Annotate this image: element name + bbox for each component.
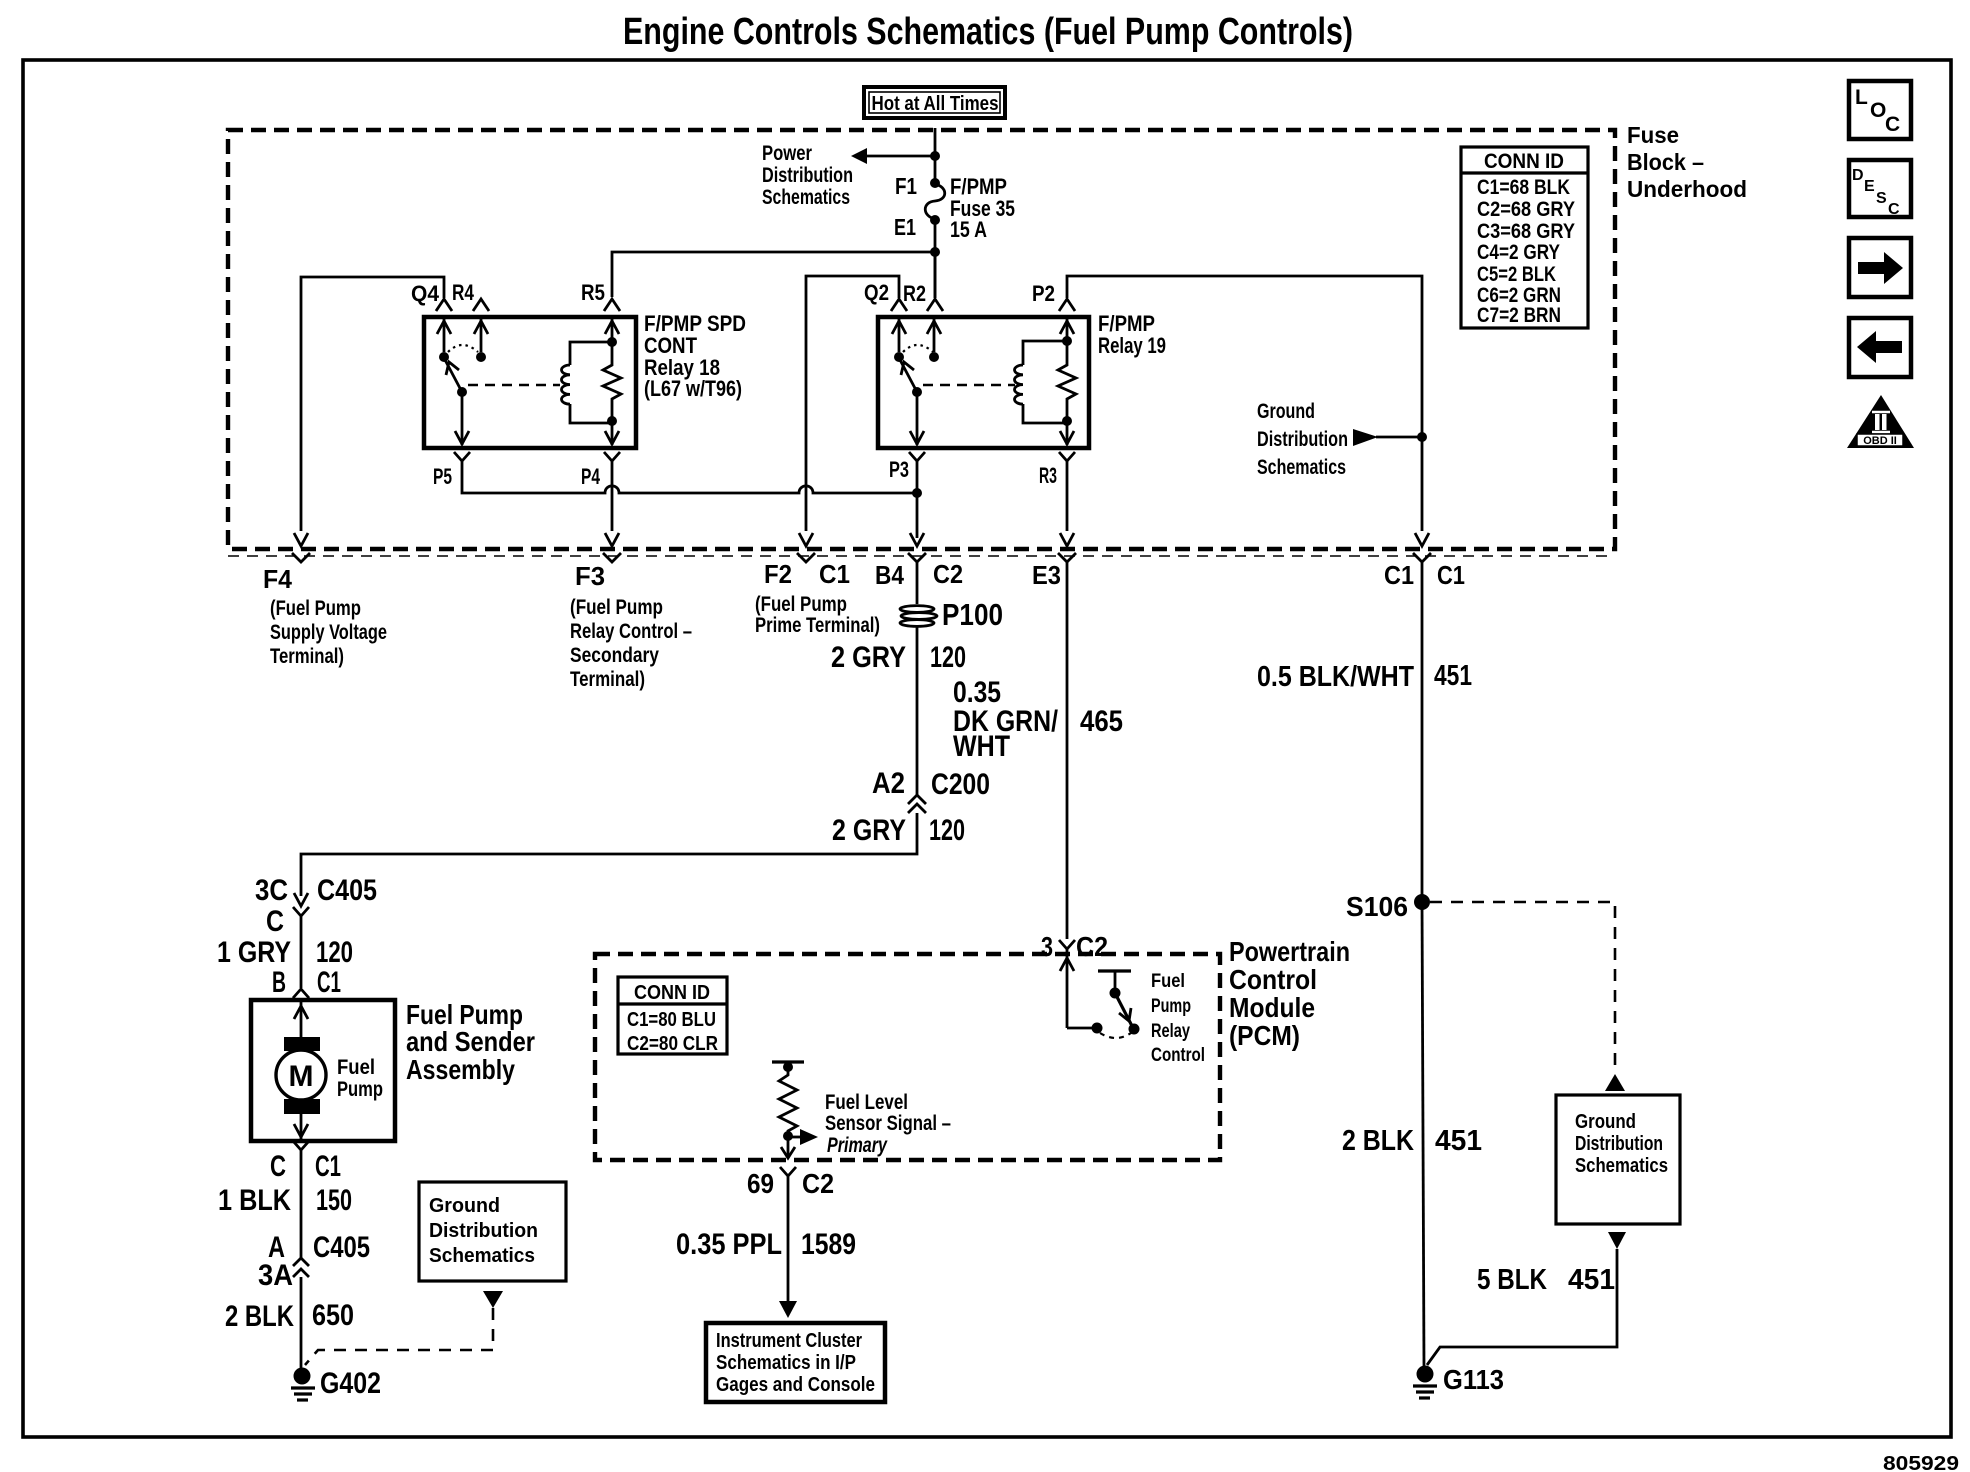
svg-text:15 A: 15 A	[950, 217, 987, 242]
svg-text:Q2: Q2	[864, 280, 889, 305]
node fuse output junction	[930, 247, 940, 257]
svg-text:Hot at All Times: Hot at All Times	[872, 93, 999, 115]
svg-text:120: 120	[929, 814, 965, 847]
wire circuit 451 from S106 to G113	[1422, 902, 1424, 1367]
value label 2 GRY 120	[831, 641, 966, 674]
svg-text:A2: A2	[872, 767, 905, 800]
svg-text:650: 650	[312, 1299, 354, 1332]
svg-text:Schematics in I/P: Schematics in I/P	[716, 1352, 856, 1374]
svg-text:3: 3	[1041, 931, 1053, 962]
svg-text:C1: C1	[1437, 560, 1465, 590]
svg-text:451: 451	[1435, 1125, 1482, 1157]
wire circuit 1589	[787, 1176, 790, 1303]
connector C405 pin 3C	[255, 874, 377, 938]
svg-text:CONN ID: CONN ID	[634, 982, 710, 1004]
svg-text:R2: R2	[903, 281, 926, 306]
label (Fuel Pump Relay Control - Secondary Terminal)	[570, 596, 692, 691]
wire R3 down to E3	[1066, 461, 1069, 531]
svg-text:C2=68 GRY: C2=68 GRY	[1477, 198, 1575, 221]
wire P3 down through junction	[916, 461, 919, 538]
svg-text:Schematics: Schematics	[1257, 456, 1346, 479]
svg-text:R5: R5	[581, 280, 605, 305]
value label 2 GRY 120 (below C200)	[832, 814, 965, 847]
svg-text:C1=68 BLK: C1=68 BLK	[1477, 176, 1570, 199]
svg-text:69: 69	[747, 1168, 774, 1199]
wire F4 feed	[301, 277, 444, 531]
pin chevron P3	[909, 452, 925, 461]
svg-text:Fuel: Fuel	[337, 1056, 375, 1079]
svg-text:O: O	[1870, 99, 1886, 122]
pin chevron P2	[1059, 299, 1075, 311]
wire battery feed from Hot at All Times	[934, 128, 937, 179]
svg-text:C2: C2	[1076, 931, 1108, 962]
wire circuit 451 (5 BLK) to G113	[1427, 1249, 1617, 1365]
svg-text:Ground: Ground	[1257, 400, 1315, 423]
svg-text:C405: C405	[317, 874, 377, 907]
svg-text:C1: C1	[317, 966, 341, 999]
svg-text:0.5 BLK/WHT: 0.5 BLK/WHT	[1257, 661, 1414, 693]
LOC icon	[1849, 81, 1911, 139]
svg-text:C: C	[1888, 201, 1900, 218]
wire circuit 465 from E3 to PCM	[1066, 562, 1069, 939]
svg-text:Engine Controls Schematics (Fu: Engine Controls Schematics (Fuel Pump Co…	[623, 11, 1353, 53]
svg-text:C4=2 GRY: C4=2 GRY	[1477, 241, 1560, 264]
terminal chevron F3	[603, 553, 621, 562]
svg-text:3C: 3C	[255, 874, 288, 907]
svg-text:Control: Control	[1151, 1045, 1205, 1066]
svg-text:Distribution: Distribution	[429, 1220, 538, 1242]
connector C1 pin B (fuel pump)	[272, 966, 341, 999]
svg-text:E1: E1	[894, 214, 916, 240]
relay K18 coil link (dashed)	[468, 384, 560, 386]
left arrow icon	[1849, 318, 1911, 377]
svg-text:G113: G113	[1443, 1364, 1504, 1395]
terminal chevron F4	[292, 553, 310, 562]
arrow into S106 reference	[1605, 1074, 1625, 1091]
svg-text:Terminal): Terminal)	[270, 645, 344, 668]
connector C1 pin C (fuel pump ground)	[270, 1141, 341, 1183]
splice P100	[900, 597, 1003, 632]
label Fuel Pump Relay Control	[1151, 971, 1205, 1066]
arrow into instrument cluster reference	[779, 1301, 797, 1318]
svg-text:Control: Control	[1229, 964, 1317, 995]
svg-text:C1: C1	[1384, 560, 1414, 590]
svg-text:Primary: Primary	[827, 1134, 888, 1157]
svg-text:G402: G402	[320, 1367, 381, 1400]
svg-text:Secondary: Secondary	[570, 644, 659, 667]
svg-text:451: 451	[1568, 1264, 1615, 1296]
DESC icon	[1849, 160, 1911, 218]
value label 0.35 DK GRN/WHT 465	[953, 676, 1123, 763]
connector C2 pin 3 (PCM)	[1041, 931, 1108, 962]
terminal chevron B4/C2	[908, 553, 926, 562]
svg-text:Distribution: Distribution	[762, 164, 853, 187]
value label 5 BLK 451	[1477, 1264, 1615, 1296]
svg-text:S106: S106	[1346, 891, 1408, 922]
svg-text:P4: P4	[581, 464, 601, 489]
terminal chevron E3	[1058, 553, 1076, 562]
CONN ID table (fuse block)	[1461, 147, 1588, 328]
title	[623, 11, 1353, 53]
svg-text:P100: P100	[942, 597, 1003, 632]
arrow from Ground Distribution box (right)	[1608, 1232, 1626, 1249]
svg-text:Q4: Q4	[411, 281, 440, 306]
svg-text:3A: 3A	[258, 1259, 293, 1292]
svg-text:R3: R3	[1039, 463, 1057, 488]
svg-text:Gages and Console: Gages and Console	[716, 1374, 875, 1396]
value label 0.35 PPL 1589	[676, 1228, 856, 1261]
svg-text:B: B	[272, 966, 286, 999]
svg-text:C7=2 BRN: C7=2 BRN	[1477, 304, 1561, 327]
svg-text:P2: P2	[1032, 281, 1055, 306]
terminal chevron F2/C1	[797, 553, 815, 562]
svg-text:451: 451	[1434, 660, 1472, 692]
node junction at power distribution tap	[930, 151, 940, 161]
svg-text:C: C	[266, 905, 284, 938]
pin chevron Q2	[891, 299, 907, 311]
svg-text:Schematics: Schematics	[429, 1245, 535, 1267]
svg-text:C5=2 BLK: C5=2 BLK	[1477, 263, 1556, 286]
svg-text:2 GRY: 2 GRY	[832, 814, 906, 847]
svg-text:150: 150	[316, 1184, 352, 1217]
svg-text:1589: 1589	[801, 1228, 856, 1261]
PCM boundary (Powertrain Control Module)	[595, 954, 1220, 1160]
svg-text:Module: Module	[1229, 992, 1315, 1023]
svg-text:F1: F1	[895, 173, 917, 199]
svg-text:120: 120	[930, 641, 966, 674]
value label 1 BLK 150	[218, 1184, 352, 1217]
relay K18 coil	[562, 317, 620, 423]
svg-text:P3: P3	[889, 457, 909, 482]
wire P5 to P3 junction (hops over P4 and F2 wires)	[462, 461, 917, 493]
svg-text:P5: P5	[433, 464, 452, 489]
svg-text:B4: B4	[875, 560, 904, 590]
wire circuit 120 to fuel pump	[300, 916, 303, 988]
wire circuit 120 below P100	[916, 627, 919, 795]
svg-text:E: E	[1864, 178, 1875, 195]
svg-text:5 BLK: 5 BLK	[1477, 1264, 1547, 1296]
terminal chevron C1/C1	[1413, 553, 1431, 562]
label F/PMP SPD CONT Relay 18 (L67 w/T96)	[644, 311, 746, 401]
label Powertrain Control Module (PCM)	[1229, 936, 1350, 1051]
svg-text:C1: C1	[819, 559, 850, 589]
label F/PMP Relay 19	[1098, 311, 1166, 358]
svg-text:Power: Power	[762, 142, 812, 165]
svg-text:C405: C405	[313, 1231, 370, 1264]
svg-text:Fuel Level: Fuel Level	[825, 1091, 908, 1114]
relay K19 switch	[892, 317, 941, 445]
ground G113	[1413, 1364, 1504, 1398]
svg-text:Ground: Ground	[429, 1195, 500, 1217]
wire to Power Distribution Schematics	[863, 155, 935, 158]
svg-text:2 BLK: 2 BLK	[225, 1300, 294, 1333]
svg-text:Sensor Signal –: Sensor Signal –	[825, 1112, 951, 1135]
svg-text:C2: C2	[802, 1168, 834, 1199]
svg-text:CONN ID: CONN ID	[1484, 150, 1564, 173]
wire circuit 650 to G402	[300, 1277, 303, 1368]
wire fuse output	[934, 221, 937, 298]
svg-text:Fuel: Fuel	[1151, 971, 1185, 992]
svg-text:F2: F2	[764, 559, 792, 589]
svg-text:L: L	[1855, 86, 1868, 109]
Hot at All Times tag	[864, 87, 1005, 118]
svg-text:C2=80 CLR: C2=80 CLR	[627, 1033, 718, 1055]
wire circuit 150	[300, 1150, 303, 1258]
right arrow icon	[1849, 238, 1911, 297]
label (Fuel Pump Prime Terminal)	[755, 593, 880, 637]
svg-text:465: 465	[1080, 705, 1123, 738]
fuse block boundary (Fuse Block - Underhood)	[228, 122, 1747, 549]
label Power Distribution Schematics	[762, 142, 853, 209]
svg-text:Schematics: Schematics	[1575, 1155, 1668, 1177]
wire fuel level signal out of PCM	[787, 1140, 790, 1158]
svg-text:R4: R4	[452, 280, 475, 305]
arrow from Ground Distribution box to G402	[483, 1291, 503, 1308]
resistor fuel level sensor pull-up	[772, 1062, 804, 1141]
wire stub R2	[934, 252, 937, 298]
svg-text:M: M	[289, 1060, 314, 1093]
svg-text:C2: C2	[933, 559, 963, 589]
pin chevron R2	[927, 299, 943, 311]
svg-text:(Fuel Pump: (Fuel Pump	[755, 593, 847, 616]
svg-text:F4: F4	[263, 564, 293, 594]
svg-text:Terminal): Terminal)	[570, 668, 645, 691]
arrow to Power Distribution	[851, 148, 867, 164]
OBD II icon	[1847, 395, 1914, 448]
wire P4 down to F3	[611, 461, 614, 531]
label Fuel Pump and Sender Assembly	[406, 999, 535, 1085]
splice S106	[1346, 891, 1430, 922]
label (Fuel Pump Supply Voltage Terminal)	[270, 597, 387, 668]
dashed reference from S106 to Ground Distribution	[1430, 902, 1615, 1070]
svg-text:Pump: Pump	[337, 1078, 383, 1101]
relay K19 coil	[1015, 317, 1075, 423]
svg-text:1 BLK: 1 BLK	[218, 1184, 291, 1217]
value label 0.5 BLK/WHT 451	[1257, 660, 1472, 693]
relay K19 resistor	[1058, 341, 1076, 445]
CONN ID table (PCM)	[618, 977, 727, 1055]
dashed reference to G402	[305, 1308, 493, 1365]
svg-text:(Fuel Pump: (Fuel Pump	[570, 596, 663, 619]
svg-text:0.35 PPL: 0.35 PPL	[676, 1228, 782, 1261]
svg-text:Distribution: Distribution	[1257, 428, 1348, 451]
svg-text:120: 120	[316, 936, 353, 969]
pin chevron R3	[1059, 452, 1075, 461]
node junction P5/P3	[912, 488, 922, 498]
svg-text:(Fuel Pump: (Fuel Pump	[270, 597, 361, 620]
svg-text:Pump: Pump	[1151, 996, 1191, 1017]
svg-text:WHT: WHT	[953, 730, 1010, 763]
svg-text:OBD II: OBD II	[1863, 435, 1897, 447]
svg-text:and Sender: and Sender	[406, 1026, 535, 1057]
svg-text:Relay: Relay	[1151, 1021, 1190, 1042]
connector C200 pin A2	[872, 767, 990, 813]
svg-text:E3: E3	[1032, 560, 1061, 590]
wire into PCM	[1066, 949, 1069, 1028]
svg-text:Relay 19: Relay 19	[1098, 333, 1166, 358]
connector plane line	[228, 555, 1615, 557]
svg-text:C: C	[1885, 113, 1900, 136]
svg-text:2 GRY: 2 GRY	[831, 641, 906, 674]
motor M1 fuel pump	[276, 1000, 383, 1141]
svg-text:Prime Terminal): Prime Terminal)	[755, 614, 880, 637]
svg-text:(PCM): (PCM)	[1229, 1020, 1300, 1051]
svg-text:Fuse: Fuse	[1627, 122, 1679, 148]
wire circuit 120 from B4/C2	[916, 562, 919, 604]
svg-text:C200: C200	[931, 768, 990, 801]
svg-text:2 BLK: 2 BLK	[1342, 1125, 1414, 1157]
relay K18 resistor	[603, 342, 621, 445]
wire P2 feed from fuse block right	[1067, 276, 1422, 531]
arrow from Ground Distribution to wire 451	[1353, 429, 1378, 446]
wire circuit 451 from fuse block C1 to S106	[1421, 562, 1424, 902]
value label 2 BLK 650	[225, 1299, 354, 1333]
svg-text:C1=80 BLU: C1=80 BLU	[627, 1009, 716, 1031]
connector C405 pin A / 3A	[258, 1231, 370, 1292]
wire to relay 18 R5	[612, 252, 935, 297]
svg-text:Powertrain: Powertrain	[1229, 936, 1350, 967]
node junction on 451 wire	[1417, 432, 1427, 442]
svg-text:Block –: Block –	[1627, 149, 1704, 175]
fuse F/PMP Fuse 35 15 A	[925, 178, 945, 225]
value label 1 GRY 120	[217, 936, 353, 969]
Instrument Cluster reference box	[706, 1323, 885, 1402]
label Fuel Level Sensor Signal - Primary	[788, 1091, 951, 1157]
pin chevron R4	[473, 299, 489, 311]
relay K19 F/PMP Relay 19 box	[878, 317, 1089, 448]
connector C2 pin 69	[747, 1167, 834, 1199]
svg-text:F3: F3	[575, 561, 605, 591]
relay K19 coil link (dashed)	[923, 384, 1015, 386]
svg-text:D: D	[1852, 167, 1864, 184]
fuel pump and sender assembly box	[251, 1000, 395, 1141]
relay K18 switch	[437, 317, 488, 445]
wire circuit 120 below C200	[301, 813, 917, 896]
svg-text:C1: C1	[315, 1150, 341, 1183]
svg-text:Supply Voltage: Supply Voltage	[270, 621, 387, 644]
wire F2/Q2 feed	[806, 276, 899, 531]
svg-text:(L67 w/T96): (L67 w/T96)	[644, 376, 742, 401]
Ground Distribution Schematics reference box (left)	[419, 1182, 566, 1281]
svg-text:Underhood: Underhood	[1627, 176, 1747, 202]
svg-text:1 GRY: 1 GRY	[217, 936, 291, 969]
pin chevron P5	[454, 452, 470, 461]
svg-text:Schematics: Schematics	[762, 186, 850, 209]
relay K18 F/PMP SPD CONT Relay 18 box	[424, 317, 636, 448]
svg-text:Distribution: Distribution	[1575, 1133, 1663, 1155]
PCM fuel pump relay control driver switch	[1067, 971, 1140, 1038]
svg-text:Ground: Ground	[1575, 1111, 1636, 1133]
label F/PMP Fuse 35 15 A	[950, 174, 1015, 242]
value label 2 BLK 451	[1342, 1125, 1482, 1157]
svg-text:C3=68 GRY: C3=68 GRY	[1477, 220, 1575, 243]
label Ground Distribution Schematics (fuse block)	[1257, 400, 1348, 479]
Ground Distribution Schematics reference box (right)	[1556, 1095, 1680, 1224]
pin chevron P4	[604, 452, 620, 461]
svg-text:Relay Control –: Relay Control –	[570, 620, 692, 643]
svg-text:Instrument Cluster: Instrument Cluster	[716, 1330, 862, 1352]
svg-text:S: S	[1876, 190, 1887, 207]
svg-text:C: C	[270, 1150, 286, 1183]
svg-text:Assembly: Assembly	[406, 1054, 515, 1085]
svg-text:805929: 805929	[1883, 1453, 1959, 1472]
ground G402	[291, 1367, 381, 1400]
pin chevron R5	[604, 299, 620, 311]
boundary arrows at fuse block exits	[294, 533, 308, 546]
pin chevron Q4	[436, 299, 452, 311]
